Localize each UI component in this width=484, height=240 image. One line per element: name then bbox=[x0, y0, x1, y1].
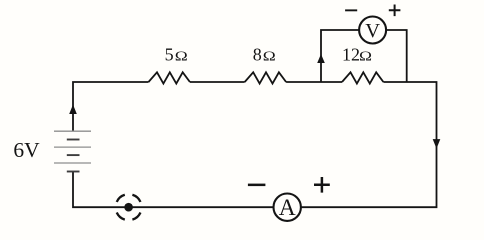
svg-text:Ω: Ω bbox=[263, 49, 276, 64]
voltmeter V1 circle bbox=[359, 17, 386, 44]
battery B1 long plate 3 bbox=[54, 162, 91, 164]
svg-text:A: A bbox=[279, 195, 296, 221]
label 12Ω resistor value bbox=[342, 45, 372, 65]
wire: top-left corner run (left rail upper + top rail to 5Ω) bbox=[73, 82, 149, 131]
key K1 plug key arcs bbox=[117, 195, 141, 220]
wire: bottom rail ammeter to bottom-left corner, up left rail to battery bbox=[73, 172, 273, 208]
svg-text:8: 8 bbox=[253, 45, 262, 65]
svg-text:12: 12 bbox=[342, 45, 360, 65]
wire: top rail between 5Ω and 8Ω bbox=[190, 81, 245, 83]
resistor R3 12Ω zigzag bbox=[342, 72, 383, 83]
label minus (voltmeter polarity) bbox=[345, 9, 357, 11]
svg-text:V: V bbox=[365, 20, 380, 42]
current arrow up on voltmeter branch bbox=[317, 54, 325, 63]
label plus (ammeter polarity) bbox=[314, 177, 330, 193]
svg-text:5: 5 bbox=[165, 44, 174, 64]
wire: top rail between 8Ω and 12Ω (junction at x=321) bbox=[286, 81, 342, 83]
resistor R1 5Ω zigzag bbox=[149, 72, 190, 83]
svg-text:6V: 6V bbox=[13, 138, 40, 162]
key K1 center dot bbox=[124, 203, 133, 212]
battery B1 long plate 2 bbox=[54, 146, 91, 148]
wire: voltmeter branch left vertical (node at x=321 on top rail) bbox=[321, 30, 359, 82]
wire: voltmeter top-right lead and right branch vertical down to top rail bbox=[386, 30, 407, 82]
label plus (voltmeter polarity) bbox=[389, 5, 401, 17]
battery B1 short plate 3 (bottom) bbox=[67, 171, 80, 173]
svg-text:Ω: Ω bbox=[175, 49, 188, 64]
resistor R2 8Ω zigzag bbox=[245, 72, 286, 83]
ammeter A1 circle bbox=[274, 194, 301, 221]
label minus (ammeter polarity) bbox=[248, 184, 266, 187]
label 5Ω resistor value bbox=[165, 44, 188, 64]
wire: top rail 12Ω to top-right corner, down right rail, bottom rail to ammeter bbox=[301, 82, 436, 207]
battery B1 short plate 2 bbox=[67, 154, 80, 156]
label 8Ω resistor value bbox=[253, 45, 276, 65]
svg-text:Ω: Ω bbox=[359, 49, 372, 64]
current arrow down on right rail bbox=[433, 139, 441, 149]
current arrow up on left rail bbox=[69, 105, 77, 115]
battery B1 long plate 1 (top) bbox=[54, 130, 91, 132]
battery B1 short plate 1 bbox=[67, 139, 80, 141]
